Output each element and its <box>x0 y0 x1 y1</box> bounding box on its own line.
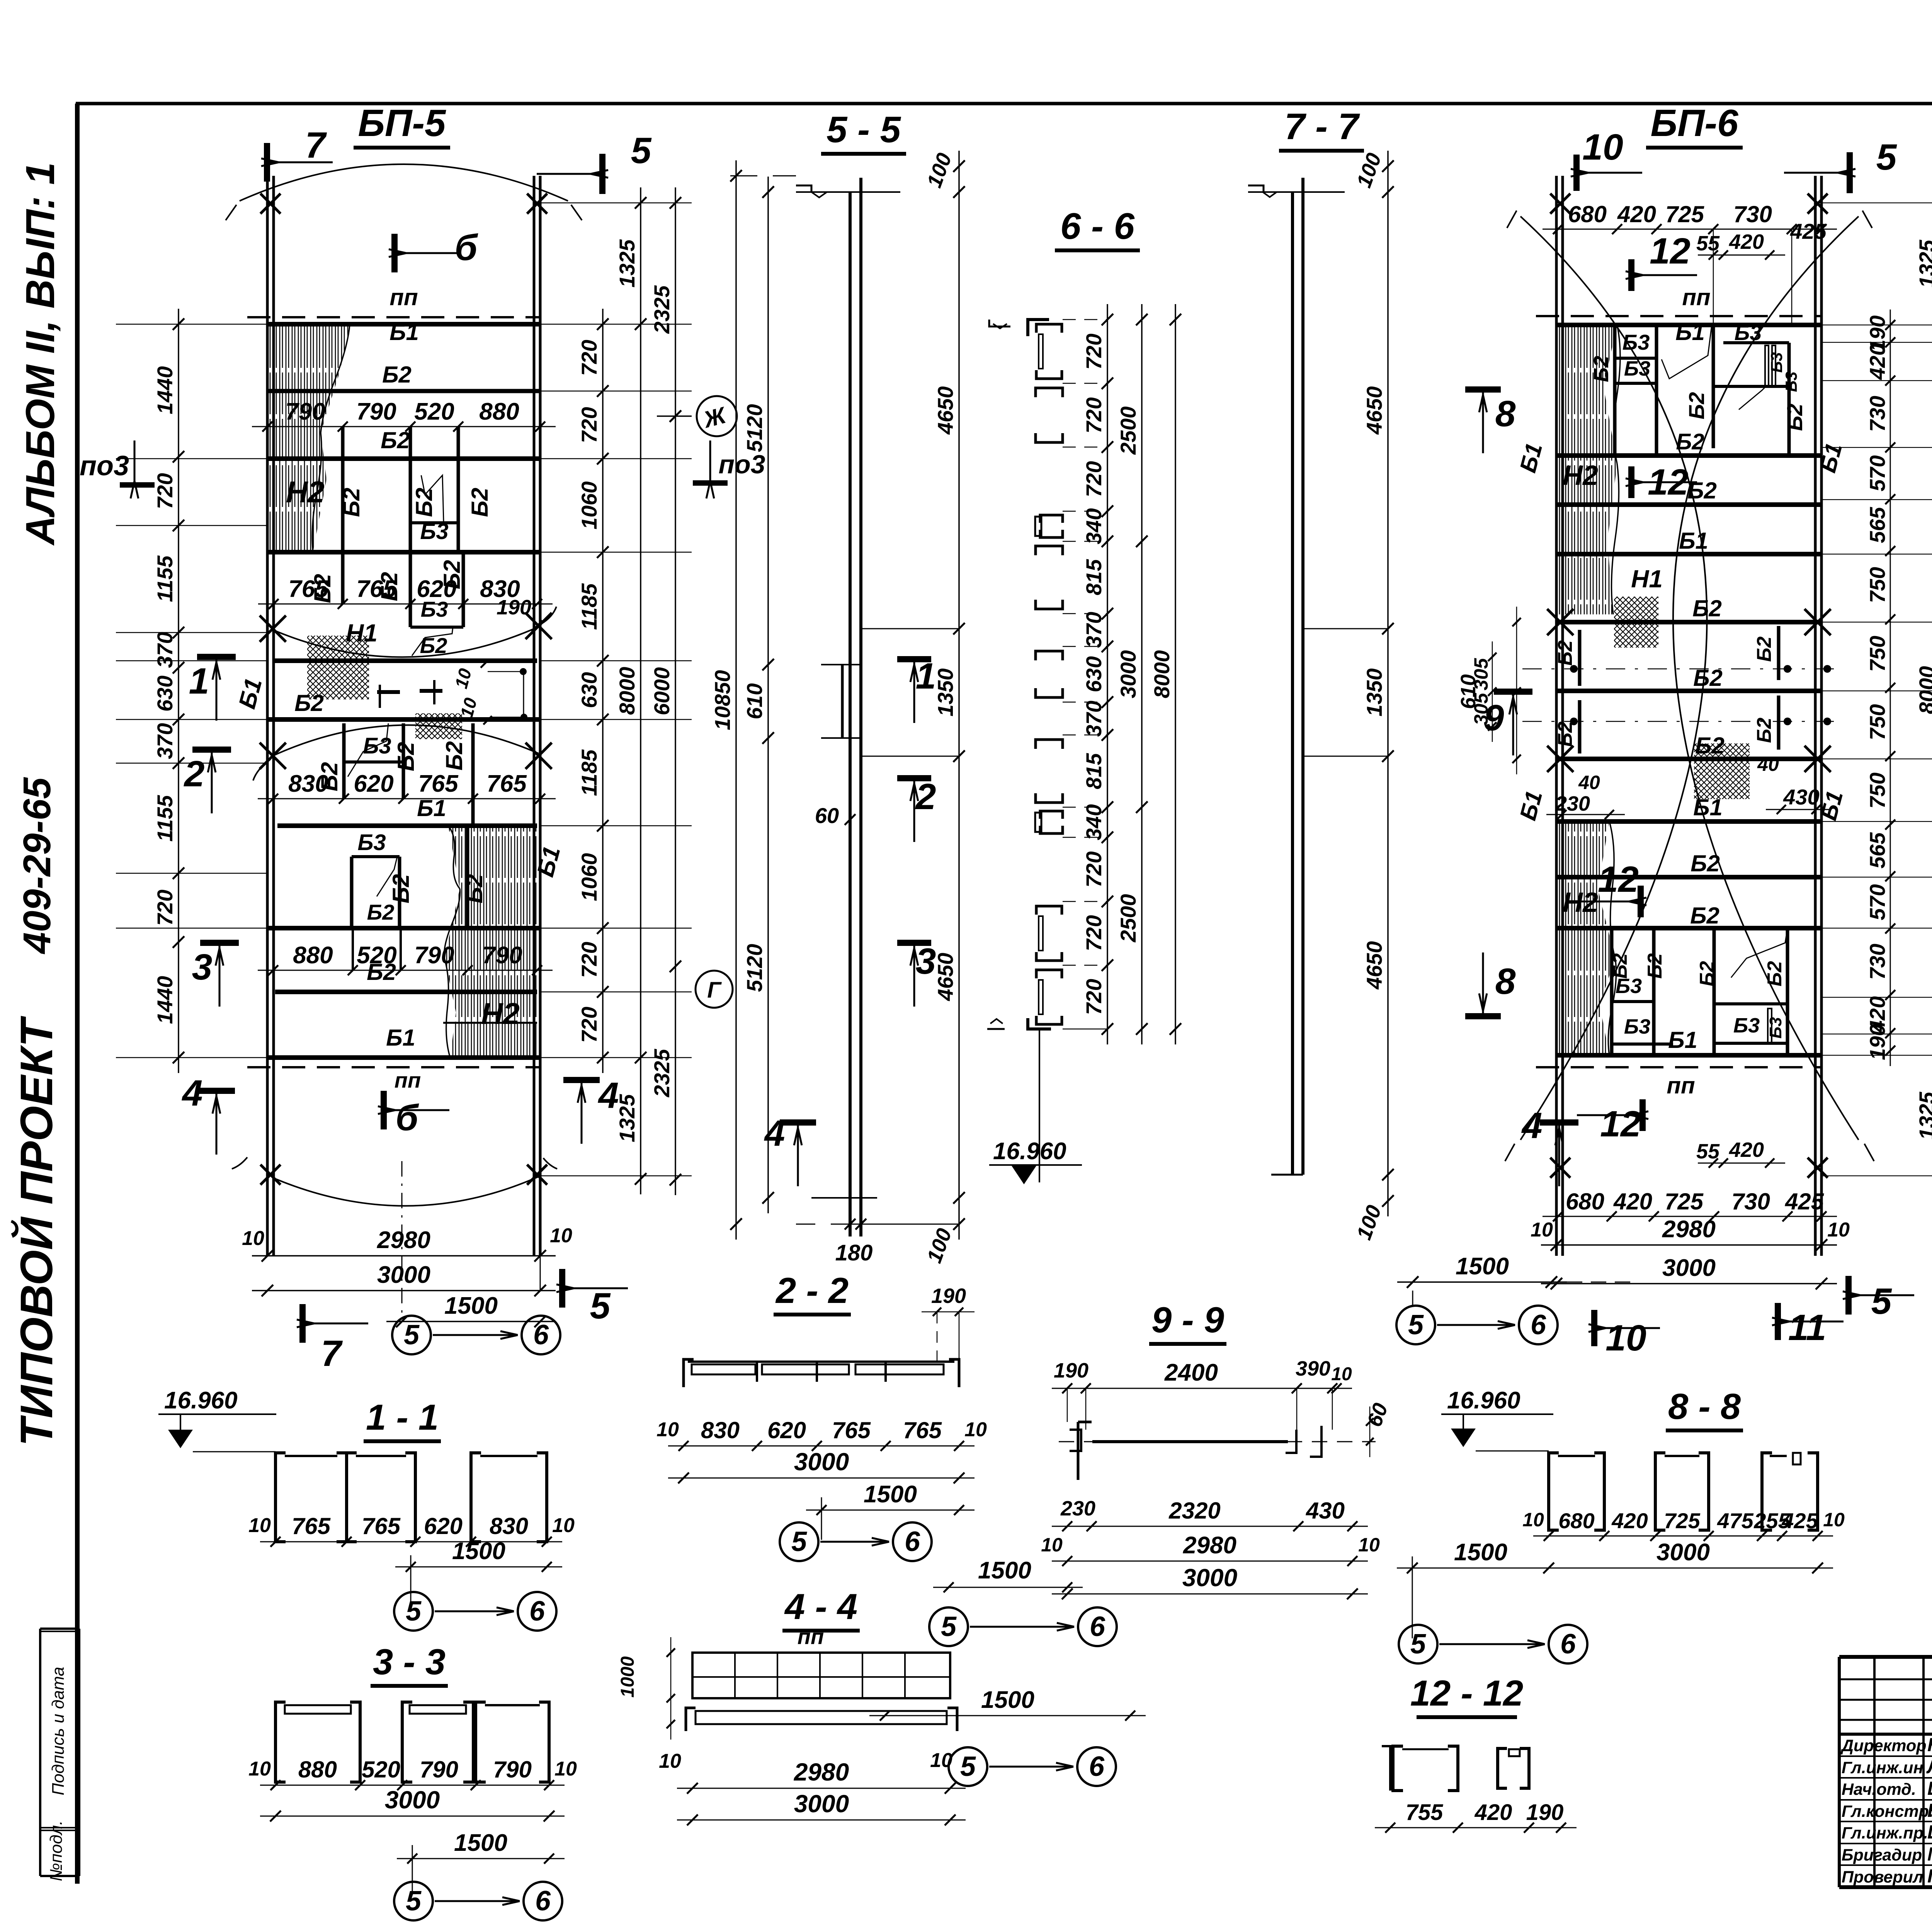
6-6 bottom corner bracket <box>1028 1018 1051 1029</box>
svg-text:750: 750 <box>1865 772 1889 808</box>
8-8 dim 1500/3000 <box>1397 1568 1833 1569</box>
svg-text:Б3: Б3 <box>1733 1014 1760 1037</box>
BP-6 hatch H2 top-left <box>1556 325 1617 614</box>
svg-text:180: 180 <box>835 1240 873 1265</box>
svg-text:Б1: Б1 <box>1675 319 1705 345</box>
svg-text:420: 420 <box>1729 1138 1764 1162</box>
svg-text:2980: 2980 <box>377 1227 430 1253</box>
svg-text:1060: 1060 <box>577 853 601 901</box>
svg-text:16.960: 16.960 <box>164 1387 238 1414</box>
svg-text:765: 765 <box>362 1513 401 1539</box>
9-9 dim 3000 <box>1052 1594 1368 1595</box>
6-6 chain 2500/3000/2500 <box>1141 304 1143 1044</box>
svg-text:230: 230 <box>1060 1497 1095 1520</box>
svg-text:190: 190 <box>931 1284 966 1308</box>
svg-text:10: 10 <box>552 1514 575 1537</box>
BP-6 top dim 55/420 <box>1698 255 1785 256</box>
BP-6 panel joint y=2270 <box>1556 875 1821 879</box>
svg-text:Б1: Б1 <box>389 319 419 345</box>
BP-5 panel joint line y=2737 <box>267 1055 540 1060</box>
6-6 small plate seg 9 <box>1040 811 1063 819</box>
svg-text:3000: 3000 <box>794 1448 849 1476</box>
BP-5 interior verticals row3 <box>350 857 354 928</box>
6-6 channel with plate seg 0 <box>1036 324 1062 333</box>
svg-text:409-29-65: 409-29-65 <box>15 777 59 954</box>
svg-text:10: 10 <box>554 1758 577 1780</box>
axis mark 6 <box>1077 1747 1116 1786</box>
margin stamp table <box>39 1629 41 1876</box>
svg-text:60: 60 <box>815 803 839 828</box>
svg-text:620: 620 <box>767 1417 806 1443</box>
svg-text:720: 720 <box>1082 461 1106 497</box>
svg-text:720: 720 <box>577 942 601 978</box>
BP-5 hatch H2 top-left <box>267 325 350 552</box>
9-9 dim 1500 <box>933 1587 1083 1588</box>
svg-text:1440: 1440 <box>153 976 177 1024</box>
svg-text:430: 430 <box>1783 785 1819 809</box>
svg-text:10: 10 <box>1823 1509 1845 1531</box>
6-6 channel with plate seg 11 <box>1036 906 1062 915</box>
svg-text:765: 765 <box>832 1417 871 1443</box>
svg-text:Подпись и дата: Подпись и дата <box>49 1667 68 1796</box>
BP-5 hatch H1 crosshatch patches <box>307 636 369 699</box>
flag 8 left bottom <box>1465 1013 1501 1019</box>
svg-text:2500: 2500 <box>1116 406 1140 455</box>
BP-6 panel joint y=1434 <box>1556 552 1821 556</box>
svg-text:565: 565 <box>1865 507 1889 543</box>
svg-text:Б2: Б2 <box>1609 953 1631 979</box>
axis mark 5 <box>394 1882 433 1920</box>
svg-text:Б3: Б3 <box>1735 320 1762 345</box>
svg-text:1325: 1325 <box>1915 240 1932 288</box>
BP-5 interior panel verticals row2 <box>341 427 345 552</box>
svg-text:5120: 5120 <box>742 404 767 452</box>
1-1 dim row 10/765/765/620/830/10 <box>260 1541 562 1543</box>
section flag 6 bottom <box>381 1091 387 1129</box>
svg-text:420: 420 <box>1611 1509 1648 1533</box>
BP-5 interior verticals row 830-620 <box>342 723 346 799</box>
svg-text:1500: 1500 <box>978 1557 1031 1584</box>
BP-6 panel joint y=1610 <box>1556 620 1821 624</box>
title row Гл.инж.пр. <box>1839 1843 1932 1844</box>
svg-text:10: 10 <box>1331 1364 1352 1384</box>
svg-text:Б2: Б2 <box>1764 961 1786 986</box>
BP-5 dim row 830 620 765 765 <box>258 798 556 799</box>
svg-text:5: 5 <box>406 1886 422 1917</box>
svg-text:750: 750 <box>1865 704 1889 740</box>
BP-6 panel joint y=2731 <box>1556 1053 1821 1058</box>
svg-text:1325: 1325 <box>615 1094 639 1142</box>
svg-text:4650: 4650 <box>933 386 957 435</box>
svg-text:730: 730 <box>1865 396 1889 432</box>
section flag 6 <box>391 234 398 272</box>
svg-text:Б2: Б2 <box>393 742 419 771</box>
7-7 right chain <box>1387 151 1389 1216</box>
title row Нач.отд. <box>1839 1799 1932 1801</box>
BP-6 bottom dim 2980 <box>1541 1244 1837 1246</box>
BP-6 panel joint y=1964 <box>1556 757 1821 761</box>
axis mark 5 <box>949 1747 987 1786</box>
BP-5 right chain 720/720/1060/1185/630/1185/1060/720/720 <box>602 309 604 1073</box>
title row Гл.инж.ин <box>1839 1777 1932 1779</box>
svg-text:Гл.инж.ин: Гл.инж.ин <box>1842 1759 1923 1777</box>
axis mark 5 <box>780 1522 818 1561</box>
svg-text:520: 520 <box>357 942 396 969</box>
axis arrow 5-6 <box>1437 1324 1515 1326</box>
svg-text:230: 230 <box>1555 792 1590 815</box>
svg-text:1440: 1440 <box>153 366 177 415</box>
svg-text:Б3: Б3 <box>1766 1017 1785 1039</box>
svg-text:10: 10 <box>550 1225 572 1247</box>
svg-text:2320: 2320 <box>1168 1498 1220 1524</box>
axis mark 6 <box>522 1316 560 1354</box>
svg-text:420: 420 <box>1729 230 1764 253</box>
svg-text:5: 5 <box>1410 1629 1426 1660</box>
svg-text:Директор: Директор <box>1840 1736 1927 1755</box>
BP-5 panel joint line y=1429 <box>267 550 540 554</box>
axis mark 6 <box>893 1522 932 1561</box>
svg-text:4: 4 <box>182 1073 203 1114</box>
svg-text:1500: 1500 <box>981 1687 1034 1713</box>
svg-text:725: 725 <box>1665 1189 1704 1214</box>
6-6 hollow channel seg 1 <box>1036 388 1063 397</box>
BP-5 mid arcs <box>273 627 539 657</box>
BP-5 bottom dim 3000 <box>252 1290 556 1291</box>
svg-text:Б2: Б2 <box>1684 392 1709 420</box>
svg-text:Б2: Б2 <box>388 874 414 903</box>
5-5 right chain 100/4650/1350/4650/100 <box>958 151 960 1240</box>
svg-text:750: 750 <box>1865 636 1889 672</box>
svg-text:425: 425 <box>1790 219 1827 243</box>
svg-text:730: 730 <box>1733 201 1772 227</box>
3-3 dim 3000 <box>260 1816 565 1817</box>
svg-text:1 - 1: 1 - 1 <box>366 1397 439 1437</box>
svg-text:2325: 2325 <box>650 1049 674 1097</box>
4-4 dim 3000 <box>677 1820 966 1821</box>
3-3 dim row 10/880/520/790/790/10 <box>260 1785 565 1786</box>
svg-text:340: 340 <box>1082 508 1106 544</box>
BP-6 flags 12 <box>1638 886 1644 917</box>
svg-text:765: 765 <box>292 1513 331 1539</box>
svg-text:1325: 1325 <box>1915 1092 1932 1140</box>
svg-text:10: 10 <box>1522 1509 1544 1531</box>
svg-text:6: 6 <box>1531 1310 1546 1340</box>
svg-text:2980: 2980 <box>1183 1532 1236 1559</box>
svg-text:5: 5 <box>406 1596 422 1627</box>
svg-text:Нечаев: Нечаев <box>1927 1735 1932 1755</box>
svg-text:880: 880 <box>479 398 519 425</box>
BP-5 bottom arc <box>273 1177 539 1206</box>
svg-text:Б2: Б2 <box>382 362 412 388</box>
svg-text:370: 370 <box>1082 612 1106 648</box>
svg-text:Шейнич: Шейнич <box>1927 1778 1932 1799</box>
svg-text:6: 6 <box>533 1320 549 1350</box>
svg-text:765: 765 <box>356 576 397 602</box>
sheet frame left border <box>75 104 80 1884</box>
BP-6 panel joint y=841 <box>1556 323 1821 327</box>
BP-6 bottom dim 3000 <box>1541 1283 1837 1284</box>
svg-text:3000: 3000 <box>385 1786 440 1814</box>
flag 8 left top <box>1465 386 1501 393</box>
svg-text:ТИПОВОЙ ПРОЕКТ: ТИПОВОЙ ПРОЕКТ <box>10 1015 62 1446</box>
svg-text:9 - 9: 9 - 9 <box>1151 1299 1224 1340</box>
svg-text:815: 815 <box>1082 753 1106 789</box>
svg-text:420: 420 <box>1617 201 1656 227</box>
svg-text:1500: 1500 <box>444 1293 498 1319</box>
svg-text:Б2: Б2 <box>1644 953 1666 979</box>
svg-text:2500: 2500 <box>1116 894 1140 943</box>
svg-text:3000: 3000 <box>1656 1539 1710 1566</box>
svg-text:830: 830 <box>490 1513 528 1539</box>
svg-text:Б2: Б2 <box>441 741 467 770</box>
title row Гл.констр. <box>1839 1821 1932 1822</box>
svg-text:БП-6: БП-6 <box>1650 102 1739 144</box>
BP-5 B3 box row2 <box>410 521 458 524</box>
1-1 channels <box>276 1453 286 1542</box>
axis arrow 5-6 <box>435 1611 514 1612</box>
8-8 dim row 10/680/420/725/475/255/425/10 <box>1533 1536 1833 1537</box>
6-6 chain 8000 <box>1175 304 1176 1044</box>
svg-text:2325: 2325 <box>650 285 674 334</box>
axis arrow 5-6 <box>989 1766 1073 1768</box>
svg-text:Н2: Н2 <box>1563 460 1598 491</box>
8-8 channels <box>1549 1453 1559 1530</box>
svg-text:390: 390 <box>1296 1357 1330 1380</box>
svg-text:720: 720 <box>577 407 601 443</box>
svg-text:10: 10 <box>1358 1534 1380 1556</box>
svg-text:3: 3 <box>192 947 213 988</box>
svg-text:570: 570 <box>1865 884 1889 920</box>
BP-6 hatch H1 crosshatch <box>1614 597 1658 648</box>
2-2 plate strip <box>684 1359 694 1387</box>
svg-text:720: 720 <box>153 473 177 509</box>
BP-6 crossing arcs <box>1520 216 1707 1140</box>
axis mark 5 <box>1396 1306 1435 1344</box>
svg-text:370: 370 <box>1082 701 1106 736</box>
svg-text:1185: 1185 <box>577 749 601 796</box>
svg-text:Б2: Б2 <box>1690 850 1720 876</box>
svg-text:Н2: Н2 <box>481 997 520 1031</box>
svg-text:8: 8 <box>1495 393 1516 434</box>
svg-text:10: 10 <box>1827 1219 1850 1241</box>
svg-text:4: 4 <box>1521 1105 1543 1146</box>
svg-text:425: 425 <box>1785 1189 1825 1214</box>
svg-text:10: 10 <box>1582 127 1623 168</box>
svg-text:6: 6 <box>535 1886 551 1917</box>
BP-5 panel joint line y=2567 <box>275 990 537 994</box>
svg-text:190: 190 <box>497 596 531 619</box>
9-9 dim 2980 <box>1052 1561 1368 1562</box>
svg-text:2: 2 <box>184 753 205 794</box>
svg-text:620: 620 <box>354 770 393 797</box>
svg-text:55: 55 <box>1696 1140 1720 1163</box>
axis arrow 5-6 <box>435 1900 520 1902</box>
svg-text:Н1: Н1 <box>1631 565 1663 593</box>
6-6 hollow channel seg 4 <box>1036 546 1063 555</box>
svg-text:880: 880 <box>298 1757 337 1782</box>
svg-text:3000: 3000 <box>377 1262 430 1288</box>
9-9 top dim 190/2400/390/10 <box>1052 1388 1352 1389</box>
BP-5 right rail B1 <box>533 176 536 1256</box>
BP-6 PP dashed bottom <box>1536 1066 1821 1068</box>
2-2 dim 3000 <box>668 1478 975 1479</box>
svg-text:790: 790 <box>493 1757 532 1782</box>
marker po3 left <box>120 482 155 488</box>
svg-text:16.960: 16.960 <box>993 1138 1066 1165</box>
svg-text:725: 725 <box>1665 201 1705 227</box>
2-2 dim 1500 <box>806 1510 975 1511</box>
svg-text:790: 790 <box>482 942 522 969</box>
svg-text:Гнатюк: Гнатюк <box>1927 1866 1932 1887</box>
section flag 1 left <box>197 654 236 660</box>
svg-text:790: 790 <box>356 398 396 425</box>
BP-5 right chain 2325/6000/2325 <box>675 187 676 1195</box>
svg-text:475: 475 <box>1717 1509 1753 1533</box>
svg-text:720: 720 <box>577 340 601 376</box>
svg-text:630: 630 <box>1082 656 1106 692</box>
5-5 column <box>849 192 852 1236</box>
svg-text:6 - 6: 6 - 6 <box>1060 206 1135 247</box>
svg-text:8000: 8000 <box>1150 650 1174 699</box>
svg-text:б: б <box>455 227 478 268</box>
6-6 channel with plate seg 12 <box>1036 970 1062 978</box>
svg-text:Гл.констр.: Гл.констр. <box>1842 1802 1932 1821</box>
svg-text:520: 520 <box>414 398 454 425</box>
title block left grid <box>1873 1657 1876 1887</box>
BP-6 top dim 680/420/725/730 <box>1543 229 1837 230</box>
BP-5 interior verticals row 765 <box>341 552 345 604</box>
axis arrow 5-6 <box>433 1334 518 1336</box>
svg-text:5: 5 <box>631 130 652 171</box>
BP-6 hatch H2 bottom-left <box>1556 821 1615 1055</box>
BP-5 dim row 880 520 790 790 <box>258 970 553 971</box>
svg-text:по3: по3 <box>719 450 765 479</box>
svg-text:12: 12 <box>1648 462 1689 503</box>
svg-text:765: 765 <box>486 770 527 797</box>
5-5 flags 1 2 3 <box>897 656 931 662</box>
svg-text:12: 12 <box>1598 859 1639 900</box>
svg-text:Гл.инж.пр.: Гл.инж.пр. <box>1842 1824 1928 1842</box>
svg-text:830: 830 <box>701 1417 740 1443</box>
BP-5 panel joint line y=2402 <box>267 926 540 930</box>
svg-text:пп: пп <box>798 1624 824 1649</box>
12-12 channels <box>1382 1746 1400 1791</box>
svg-text:3000: 3000 <box>1662 1255 1716 1281</box>
svg-text:6: 6 <box>1560 1629 1576 1660</box>
svg-text:1185: 1185 <box>577 583 601 630</box>
axis mark 6 <box>1519 1306 1558 1344</box>
svg-text:10: 10 <box>659 1750 681 1772</box>
svg-text:Б2: Б2 <box>294 690 324 716</box>
svg-text:6000: 6000 <box>650 667 674 716</box>
4-4 lower plate <box>686 1708 696 1731</box>
BP-5 panel joint line y=1862 <box>267 717 540 722</box>
BP-6 bottom dim 1500 <box>1397 1281 1567 1283</box>
svg-text:Н1: Н1 <box>346 619 378 647</box>
BP-6 305 dims <box>1492 641 1493 742</box>
BP-5 bottom dim 1500 <box>386 1321 556 1322</box>
svg-text:Б2: Б2 <box>1690 903 1719 929</box>
2-2 dim 190 <box>922 1311 975 1313</box>
5-5 top plate line <box>796 191 900 193</box>
svg-text:2: 2 <box>915 776 936 817</box>
svg-text:720: 720 <box>1082 979 1106 1015</box>
BP-6 bottom dim 680/420/725/730/425 <box>1543 1216 1837 1217</box>
svg-text:7: 7 <box>321 1333 343 1374</box>
svg-text:4: 4 <box>764 1113 785 1154</box>
svg-text:6: 6 <box>529 1596 545 1627</box>
svg-text:2400: 2400 <box>1164 1359 1218 1386</box>
svg-text:Шеверницкий: Шеверницкий <box>1927 1822 1932 1843</box>
BP-5 PP dashed top <box>247 316 540 318</box>
svg-text:10850: 10850 <box>710 670 735 730</box>
svg-text:пп: пп <box>389 284 418 310</box>
6-6 small plate seg 3 <box>1040 515 1063 523</box>
svg-text:10: 10 <box>1041 1534 1063 1556</box>
svg-text:370: 370 <box>153 632 177 668</box>
svg-text:55: 55 <box>1696 232 1720 255</box>
svg-text:БП-5: БП-5 <box>358 102 446 144</box>
BP-5 panel joint line y=1710 <box>272 658 537 663</box>
svg-text:10: 10 <box>248 1514 271 1537</box>
svg-text:Б2: Б2 <box>1554 640 1577 666</box>
svg-text:Киселёв: Киселёв <box>1927 1800 1932 1821</box>
svg-text:Б3: Б3 <box>1624 357 1650 380</box>
BP-6 panel joint y=2402 <box>1556 926 1821 930</box>
svg-text:420: 420 <box>1865 344 1889 380</box>
svg-text:Б2: Б2 <box>1753 718 1776 743</box>
svg-text:Б2: Б2 <box>1696 961 1718 986</box>
svg-text:Б1: Б1 <box>1679 528 1708 554</box>
section flag 3 left <box>200 940 239 946</box>
svg-text:Б2: Б2 <box>1695 733 1725 759</box>
svg-text:790: 790 <box>414 942 454 969</box>
svg-text:1325: 1325 <box>615 239 639 287</box>
svg-text:570: 570 <box>1865 455 1889 491</box>
axis arrow 5-6 <box>1439 1643 1545 1645</box>
svg-text:1: 1 <box>189 661 209 702</box>
svg-text:610: 610 <box>742 683 767 719</box>
BP-6 panel joint y=1306 <box>1556 502 1821 507</box>
svg-text:425: 425 <box>1781 1509 1818 1533</box>
svg-text:755: 755 <box>1406 1800 1444 1825</box>
svg-text:7: 7 <box>305 125 327 166</box>
axis mark 5 <box>392 1316 431 1354</box>
svg-text:Б3: Б3 <box>357 830 386 855</box>
svg-text:720: 720 <box>577 1007 601 1043</box>
svg-text:680: 680 <box>1558 1509 1594 1533</box>
section flag 4 bottom-right <box>563 1077 600 1083</box>
4-4 left dims 1000/100 <box>670 1637 672 1740</box>
svg-text:765: 765 <box>288 576 329 602</box>
3-3 dim 1500 <box>397 1858 565 1859</box>
svg-text:Б2: Б2 <box>1782 404 1807 431</box>
BP-6 right chain 190..190 <box>1890 310 1891 1066</box>
svg-text:Б3: Б3 <box>420 519 448 544</box>
svg-text:Б1: Б1 <box>1668 1027 1697 1053</box>
svg-text:2980: 2980 <box>1662 1216 1716 1243</box>
svg-text:Б1: Б1 <box>386 1025 415 1051</box>
svg-text:№подл.: №подл. <box>47 1820 66 1881</box>
svg-text:6: 6 <box>1090 1611 1105 1642</box>
axis mark 6 <box>518 1592 556 1631</box>
svg-text:Б2: Б2 <box>461 874 487 903</box>
svg-text:10: 10 <box>656 1418 679 1441</box>
section flag 7 bottom-left <box>299 1304 306 1343</box>
axis mark 5 <box>394 1592 433 1631</box>
BP-6 panel joint y=2126 <box>1556 819 1821 824</box>
9-9 beam <box>1092 1440 1288 1443</box>
